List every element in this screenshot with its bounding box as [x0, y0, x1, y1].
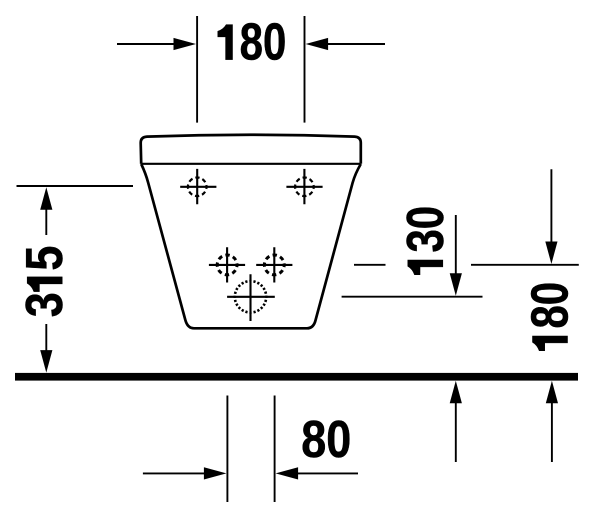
- hole upper-left crosshair: [180, 169, 216, 204]
- dimension 80 bottom: left arrow: [143, 467, 227, 479]
- hole middle-right dashed circle: [264, 255, 284, 275]
- hole upper-left dashed circle: [188, 178, 207, 197]
- svg-text:3: 3: [16, 292, 74, 317]
- dimension 130 right: down arrow: [450, 215, 462, 296]
- dimension text 180 right: [522, 282, 580, 351]
- node line middle-holes level: right part: [471, 264, 579, 266]
- hole middle-left dashed circle: [217, 255, 237, 275]
- dimension 130 right: up arrow at floor: [450, 381, 462, 462]
- dimension 80 bottom: left extension line: [226, 396, 228, 503]
- svg-text:5: 5: [16, 246, 74, 271]
- hole large center crosshair: [227, 274, 275, 321]
- svg-text:30: 30: [397, 206, 455, 253]
- node line large-hole level: [342, 296, 483, 298]
- dimension 315 left: top extension line: [17, 185, 134, 187]
- svg-text:80: 80: [240, 14, 287, 72]
- floor line (wall/floor datum): [15, 373, 578, 381]
- fixture tapered body outline: [141, 164, 361, 328]
- dimension 180 top: left arrow: [117, 38, 196, 50]
- node line middle-holes level: left stub: [354, 264, 386, 266]
- hole large dotted circle: [235, 281, 266, 312]
- hole middle-right crosshair: [256, 247, 292, 282]
- hole upper-right crosshair: [286, 169, 322, 204]
- dimension text 180 top: [218, 14, 287, 72]
- dimension 80 bottom: right arrow: [276, 467, 358, 479]
- dimension 180 right: down arrow: [545, 169, 557, 264]
- dimension 180 top: left extension line: [196, 16, 198, 123]
- dimension 315 left: up arrow: [40, 187, 52, 235]
- dimension text 130 right: [397, 206, 455, 275]
- hole middle-left crosshair: [209, 247, 245, 282]
- fixture rim bottom line: [141, 163, 361, 165]
- fixture rim outline: [141, 135, 361, 164]
- dimension 180 right: up arrow at floor: [546, 381, 558, 462]
- dimension 180 top: right arrow: [306, 38, 385, 50]
- dimension text 315 left: [16, 246, 74, 318]
- dimension 315 left: down arrow: [40, 324, 52, 373]
- hole upper-right dashed circle: [295, 178, 314, 197]
- svg-text:80: 80: [301, 411, 351, 469]
- dimension 80 bottom: right extension line: [274, 396, 276, 503]
- dimension 180 top: right extension line: [304, 16, 306, 123]
- svg-text:80: 80: [522, 282, 580, 329]
